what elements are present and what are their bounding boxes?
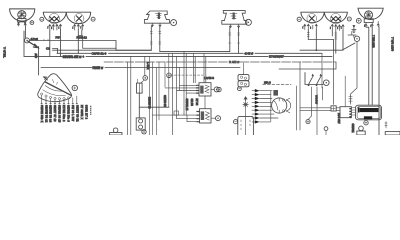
bulb XX in lamp E5	[331, 13, 342, 24]
foot dimmer switch	[305, 73, 323, 87]
terminal arrows under lamp E3	[74, 24, 84, 30]
small circle bottom motor area	[324, 127, 328, 135]
foot dimmer terminal circle	[324, 80, 330, 86]
wire H5 drop at 322	[321, 53, 323, 88]
wire from lamp E4 inner terminal	[315, 30, 317, 52]
wire code ticks under lamps D/E	[307, 33, 337, 40]
wire from dip relay down to motor plug	[349, 42, 357, 105]
terminal arrows under lamp E6	[365, 22, 379, 28]
wire into motor connector from above	[344, 76, 346, 107]
ignition switch contact block	[273, 90, 278, 96]
bus wire 45-11-6 dashes	[104, 60, 336, 64]
arrow above junction box	[244, 97, 247, 101]
svg-text:RT/SW 56: RT/SW 56	[147, 97, 150, 109]
svg-text:GE/GR 58c 8: GE/GR 58c 8	[66, 105, 69, 122]
relay K2	[200, 109, 212, 123]
ignition switch right verticals	[297, 62, 300, 130]
motor connector box	[331, 106, 351, 118]
right margin vertical text	[391, 37, 395, 51]
svg-text:SW/GE 58b K: SW/GE 58b K	[40, 105, 43, 123]
terminal code specks under lamps	[47, 24, 371, 29]
fuse F1	[137, 79, 145, 93]
vertical text bottom right	[351, 124, 355, 133]
connector with circle bottom-left	[110, 128, 122, 135]
svg-text:Y 4/TBL: Y 4/TBL	[3, 47, 7, 58]
svg-text:- - - - -: - - - - -	[89, 106, 92, 115]
horn H1	[144, 11, 169, 23]
bus wire 56a	[116, 49, 151, 51]
headlamp switch contact circles	[41, 93, 70, 100]
wire from bus into fuse F1	[144, 56, 146, 75]
wire from E3 terminal to bus	[78, 30, 82, 54]
label -D45	[244, 51, 253, 55]
svg-text:GR 58: GR 58	[190, 99, 193, 107]
ignition switch secondary arc	[286, 98, 291, 113]
headlamp switch lever knob circle	[72, 85, 77, 90]
vertical wire label 7WS	[372, 35, 376, 48]
horn H2 legs	[229, 24, 239, 28]
svg-text:SW 30 L 567: SW 30 L 567	[71, 105, 74, 122]
junction circle with wire arrow 30	[25, 37, 39, 48]
ground circle lower left of motor	[306, 120, 310, 124]
bulb of lamp E1 (hatched)	[18, 11, 26, 24]
bus wire C2/45-11-6	[57, 52, 322, 56]
fuse holder F2	[136, 118, 145, 130]
bus wire RWE w	[41, 66, 240, 70]
svg-text:7 WS 18/6: 7 WS 18/6	[372, 35, 376, 48]
motor ground circle	[364, 121, 368, 125]
ground circle under fuse holder	[142, 130, 146, 134]
bulb X in lamp E4	[307, 14, 317, 24]
wire from fuse to relay K2	[139, 106, 169, 108]
bus wire C3	[46, 47, 58, 54]
connector tick row under switch	[41, 102, 78, 104]
svg-text:GE/RT 58 K1: GE/RT 58 K1	[76, 105, 79, 122]
wire from horn H2 right leg	[238, 28, 240, 54]
wire pair into motor connector	[300, 108, 340, 111]
terminal arrows under lamp E1	[17, 23, 26, 26]
ignition switch terminal leads	[252, 91, 278, 122]
wire from horn H1 left leg	[53, 27, 153, 51]
label ETGRWS7	[269, 55, 284, 59]
ground circle right of lamp E3	[91, 17, 95, 21]
bulb X in lamp E3	[74, 14, 84, 24]
wire from E2 terminal to bus	[60, 30, 62, 57]
headlamp switch wire labels (rotated)	[40, 105, 92, 123]
headlamp switch lever	[45, 82, 71, 96]
wire from lamp E6 to motor	[366, 27, 369, 105]
svg-text:LR/45-8: LR/45-8	[204, 76, 214, 80]
bus wire 58	[30, 39, 116, 50]
right edge tick marks	[385, 122, 387, 129]
terminal arrows under lamp E2	[49, 24, 62, 30]
svg-text:GR/GR-SE w +: GR/GR-SE w +	[63, 55, 85, 59]
ground point circle near lamp E1	[30, 21, 34, 25]
fuse F1 top circle	[143, 76, 148, 81]
lamp E4/E5 headlamp double housing right	[301, 12, 348, 23]
connector circle left of lamp E2	[40, 17, 44, 21]
terminal circle of horn H2	[245, 19, 251, 25]
bulb of lamp E6 (hatched)	[364, 11, 373, 23]
svg-text:RT 30: RT 30	[195, 99, 198, 106]
svg-text:25A 6: 25A 6	[264, 80, 271, 84]
wire from horn H1 right leg	[159, 27, 230, 52]
terminal arrows under lamp E4	[304, 24, 318, 29]
svg-text:-D45 #: -D45 #	[244, 51, 253, 55]
wire from E3 terminal to bus	[83, 36, 116, 49]
wire from lamp E6 mid terminal down	[371, 27, 373, 105]
svg-text:PW: PW	[56, 35, 61, 39]
cross bus right 56b	[300, 49, 342, 51]
svg-text:RWE w: RWE w	[93, 66, 104, 70]
small circle under connector stack	[238, 87, 242, 91]
svg-text:SW/GE: SW/GE	[351, 124, 355, 133]
wire from star into junction box	[245, 107, 247, 116]
wire from relay K1 to relay K2	[204, 96, 206, 109]
relay K2 terminal stubs	[197, 112, 200, 122]
ignition switch terminal arrows	[255, 89, 260, 124]
relay K1 terminal circle	[211, 87, 219, 92]
dip relay circle	[354, 36, 359, 41]
horn H1 legs	[151, 23, 161, 26]
high/low beam bulb XX in lamp E2	[49, 13, 60, 24]
wires into relay K2	[152, 115, 197, 122]
svg-text:GE/WS 58: GE/WS 58	[163, 95, 166, 107]
wire from fuse F1 down	[138, 93, 140, 118]
lamp E6 right parking lamp housing	[358, 8, 383, 19]
bundle rotated labels	[146, 62, 166, 109]
lamp E2/E3 headlamp double housing	[43, 12, 90, 24]
ignition switch label dashes	[263, 80, 291, 84]
terminal circle of horn H1	[171, 20, 177, 26]
headlamp switch inner arcs	[43, 80, 66, 96]
wire bundle center verticals	[150, 53, 169, 135]
label LR/45-8	[204, 76, 214, 80]
svg-text:C2/45-11-6: C2/45-11-6	[92, 52, 107, 56]
horn H2	[222, 11, 247, 25]
svg-text:GR/RT 57 18: GR/RT 57 18	[53, 105, 56, 122]
svg-text:ETGRWS7: ETGRWS7	[269, 55, 284, 59]
dip relay switch arm	[342, 43, 355, 50]
lamp E1 left parking lamp housing	[10, 9, 35, 21]
long wire pair center-left	[128, 56, 131, 135]
wire drops to relay K1	[172, 52, 205, 135]
connector block stack	[238, 63, 249, 87]
left margin vertical text	[3, 47, 7, 58]
svg-text:7 WS 18/6: 7 WS 18/6	[391, 37, 395, 51]
svg-text:GE/SW 58 14: GE/SW 58 14	[49, 105, 52, 123]
svg-text:RT/GE 56a 2: RT/GE 56a 2	[62, 105, 65, 122]
connector circle left of lamp E4	[297, 17, 301, 21]
ground circle left of ignition switch	[217, 87, 221, 91]
relay K1	[199, 83, 211, 96]
ignition switch collector vertical	[270, 91, 272, 122]
ignition label box	[279, 62, 336, 69]
svg-text:GR/SW 56 12: GR/SW 56 12	[44, 105, 47, 123]
wire into relay K1 from bundle	[165, 85, 196, 93]
svg-text:14-5 SW: 14-5 SW	[337, 113, 341, 124]
svg-text:SW/GE 15: SW/GE 15	[185, 99, 188, 111]
svg-text:30/51 RT 2: 30/51 RT 2	[85, 105, 88, 120]
ignition switch rotor circle	[272, 98, 287, 113]
wire H6 drop to motor connector	[333, 50, 335, 104]
vertical wire from junction down	[34, 47, 38, 75]
junction box bottom center	[238, 116, 254, 135]
wire label FWS-12	[56, 35, 88, 39]
headlamp switch wires down	[42, 95, 77, 104]
ground symbol under lamp E5	[352, 25, 356, 32]
svg-text:1-45 R: 1-45 R	[146, 62, 149, 70]
ground circle right of lamp E5	[347, 17, 351, 21]
vertical labels between relays	[185, 99, 198, 111]
small connector bottom right	[357, 126, 365, 135]
dashed label line above relay K1	[170, 74, 203, 76]
bus wire GR/GR-SE w	[24, 55, 332, 59]
headlamp switch housing (fan sector)	[38, 74, 72, 102]
star symbol above junction box	[243, 102, 248, 107]
wire from lamp E6 right terminal down	[378, 27, 380, 135]
wire from E2 terminal to bus	[49, 30, 51, 57]
svg-text:RT 30/51 X: RT 30/51 X	[80, 105, 83, 120]
relay K1 terminal stubs	[196, 85, 199, 93]
relay K2 terminal circle	[211, 116, 221, 121]
vertical text near motor	[337, 113, 341, 124]
left frame vertical wire	[23, 31, 25, 56]
wire from lamp E4 down to cross wire	[308, 30, 333, 51]
svg-text:SW: SW	[34, 53, 38, 58]
dip relay contact T	[348, 32, 356, 38]
circle on junction box left edge	[234, 120, 238, 124]
svg-text:WS/SW: WS/SW	[315, 95, 319, 105]
wiper motor	[356, 105, 382, 120]
connector circle before lamp E6	[356, 18, 361, 23]
motor plug ticks	[352, 108, 355, 116]
headlamp switch apex arrow	[43, 77, 47, 80]
wires below foot dimmer	[308, 87, 322, 135]
wire from lamp E1 down to junction	[24, 26, 26, 38]
terminal arrows under lamp E5	[331, 24, 344, 30]
svg-text:R GE w: R GE w	[229, 60, 240, 64]
svg-text:C3: C3	[46, 47, 50, 51]
wire from horn H2 left leg	[229, 28, 231, 52]
wire from lamp E5 terminals down	[332, 30, 343, 53]
connector circle on bundle	[167, 73, 172, 78]
svg-text:SW/GR 30 15: SW/GR 30 15	[58, 105, 61, 123]
bottom right corner box	[385, 132, 400, 135]
small connector box left of relay K2	[174, 111, 178, 115]
